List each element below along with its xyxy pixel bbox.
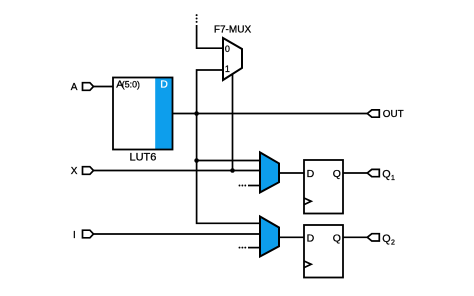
svg-text:0: 0: [225, 44, 230, 54]
svg-text:D: D: [307, 168, 315, 180]
svg-text:Q: Q: [382, 168, 390, 180]
svg-text:2: 2: [391, 239, 395, 246]
svg-text:A: A: [71, 82, 78, 93]
svg-text:(5:0): (5:0): [122, 80, 140, 90]
svg-text:Q: Q: [382, 233, 390, 245]
svg-text:LUT6: LUT6: [130, 152, 157, 164]
svg-text:OUT: OUT: [383, 109, 404, 120]
svg-text:X: X: [71, 166, 78, 177]
svg-text:I: I: [73, 230, 76, 241]
svg-text:Q: Q: [333, 168, 341, 180]
svg-text:F7-MUX: F7-MUX: [214, 25, 252, 36]
svg-text:1: 1: [391, 175, 395, 182]
svg-text:1: 1: [225, 64, 230, 74]
svg-text:D: D: [160, 79, 168, 91]
svg-text:D: D: [307, 233, 315, 245]
svg-text:Q: Q: [333, 233, 341, 245]
